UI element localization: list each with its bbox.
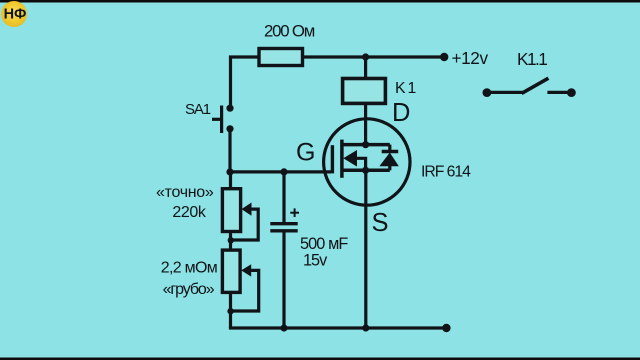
- potentiometer R2 wiper arrow: [242, 203, 252, 216]
- wire top rail left segment: [231, 57, 260, 108]
- switch SA1 actuator stub: [212, 118, 222, 121]
- node junction capacitor top: [280, 168, 287, 175]
- transistor Q1 channel bar: [340, 140, 344, 178]
- diode body triangle: [379, 153, 398, 167]
- svg-text:220k: 220k: [172, 204, 206, 221]
- svg-text:200 Ом: 200 Ом: [264, 21, 315, 40]
- svg-text:2,2 мОм: 2,2 мОм: [161, 260, 217, 277]
- wire source lead to bottom rail: [364, 170, 367, 328]
- transistor Q1 source inner wire: [342, 168, 390, 172]
- wire relay to drain: [364, 103, 367, 144]
- wire bottom rail: [231, 326, 446, 328]
- capacitor C1 plus sign: [290, 208, 299, 217]
- svg-text:15v: 15v: [303, 252, 328, 270]
- potentiometer R2 220k body: [222, 189, 240, 232]
- node junction gate wire: [226, 168, 233, 175]
- svg-text:K1.1: K1.1: [517, 49, 547, 69]
- svg-text:«точно»: «точно»: [156, 184, 214, 201]
- wire gate node to potentiometer R2: [229, 172, 232, 189]
- switch SA1 contact dots: [226, 105, 233, 112]
- wire SA1 to gate node: [228, 129, 231, 172]
- wire top rail right segment: [303, 55, 444, 58]
- svg-text:K 1: K 1: [395, 80, 417, 97]
- wire gate horizontal: [230, 170, 331, 173]
- node junction top rail / relay: [362, 53, 369, 60]
- svg-text:НФ: НФ: [4, 7, 27, 23]
- top letterbox bar: [0, 0, 640, 3]
- relay contact K1.1 right dot: [567, 88, 576, 97]
- node bottom rail right terminal dot: [442, 324, 450, 332]
- node +12v terminal dot: [440, 53, 448, 61]
- node junction bottom capacitor: [280, 324, 287, 331]
- wire R3 wiper loop: [231, 270, 259, 311]
- diode body cathode bar: [382, 150, 399, 153]
- node junction R2 wiper: [228, 237, 234, 243]
- svg-text:G: G: [296, 138, 315, 166]
- transistor Q1 body circle: [324, 119, 410, 205]
- diode body bottom lead: [388, 166, 391, 171]
- switch SA1 actuator bar: [220, 106, 223, 134]
- relay contact K1.1 left lead: [487, 91, 523, 94]
- relay contact K1.1 left dot: [483, 88, 492, 97]
- svg-text:D: D: [392, 99, 410, 127]
- node junction R3 wiper: [227, 308, 233, 314]
- capacitor C1 bottom plate: [270, 229, 297, 232]
- potentiometer R3 wiper arrow: [241, 264, 251, 276]
- logo НФ: [1, 1, 27, 27]
- svg-text:S: S: [372, 209, 389, 237]
- wire R3 to bottom rail: [229, 292, 232, 328]
- wire capacitor bottom lead: [282, 232, 285, 328]
- node junction source inner: [362, 167, 369, 174]
- svg-text:IRF 614: IRF 614: [421, 164, 471, 181]
- wire substrate arrow link: [356, 158, 366, 170]
- svg-text:+12v: +12v: [452, 48, 489, 68]
- svg-text:500 мF: 500 мF: [300, 235, 348, 253]
- wire between potentiometers: [229, 232, 232, 251]
- node junction drain inner: [362, 141, 369, 148]
- diode body top lead: [388, 145, 391, 152]
- relay K1 coil: [343, 79, 386, 104]
- relay contact K1.1 lever: [522, 78, 549, 93]
- resistor R1 200 Ом: [259, 49, 303, 66]
- wire relay top lead: [364, 57, 367, 79]
- transistor Q1 gate plate: [331, 145, 334, 173]
- svg-text:«грубо»: «грубо»: [163, 281, 215, 298]
- node junction bottom source: [362, 324, 369, 331]
- bottom letterbox bar: [0, 358, 640, 360]
- potentiometer R3 2,2 мОм body: [222, 250, 240, 292]
- svg-text:SA1: SA1: [185, 101, 211, 118]
- wire R2 wiper loop: [231, 209, 258, 240]
- wire capacitor top lead: [282, 172, 285, 222]
- relay contact K1.1 right lead: [547, 91, 571, 94]
- capacitor C1 top plate: [270, 222, 297, 225]
- transistor Q1 drain inner wire: [342, 143, 390, 147]
- transistor Q1 substrate arrow: [343, 150, 357, 167]
